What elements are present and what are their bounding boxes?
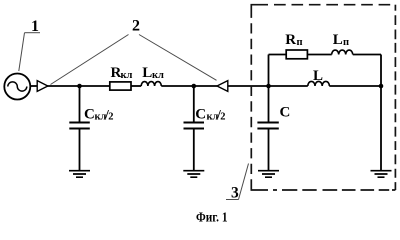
- svg-text:2: 2: [220, 112, 225, 123]
- svg-text:Фиг. 1: Фиг. 1: [196, 211, 228, 224]
- svg-text:C: C: [280, 105, 291, 121]
- svg-text:С: С: [195, 107, 206, 123]
- svg-text:2: 2: [108, 112, 113, 123]
- svg-text:R: R: [285, 32, 296, 48]
- svg-text:L: L: [142, 65, 152, 81]
- svg-text:п: п: [297, 37, 303, 48]
- svg-text:кл: кл: [152, 70, 164, 81]
- svg-text:3: 3: [231, 185, 239, 202]
- svg-text:L: L: [313, 68, 323, 84]
- svg-text:1: 1: [31, 18, 39, 35]
- svg-text:2: 2: [132, 18, 140, 35]
- svg-text:L: L: [333, 32, 343, 48]
- svg-text:С: С: [84, 107, 95, 123]
- svg-text:кл: кл: [121, 70, 133, 81]
- svg-text:п: п: [343, 37, 349, 48]
